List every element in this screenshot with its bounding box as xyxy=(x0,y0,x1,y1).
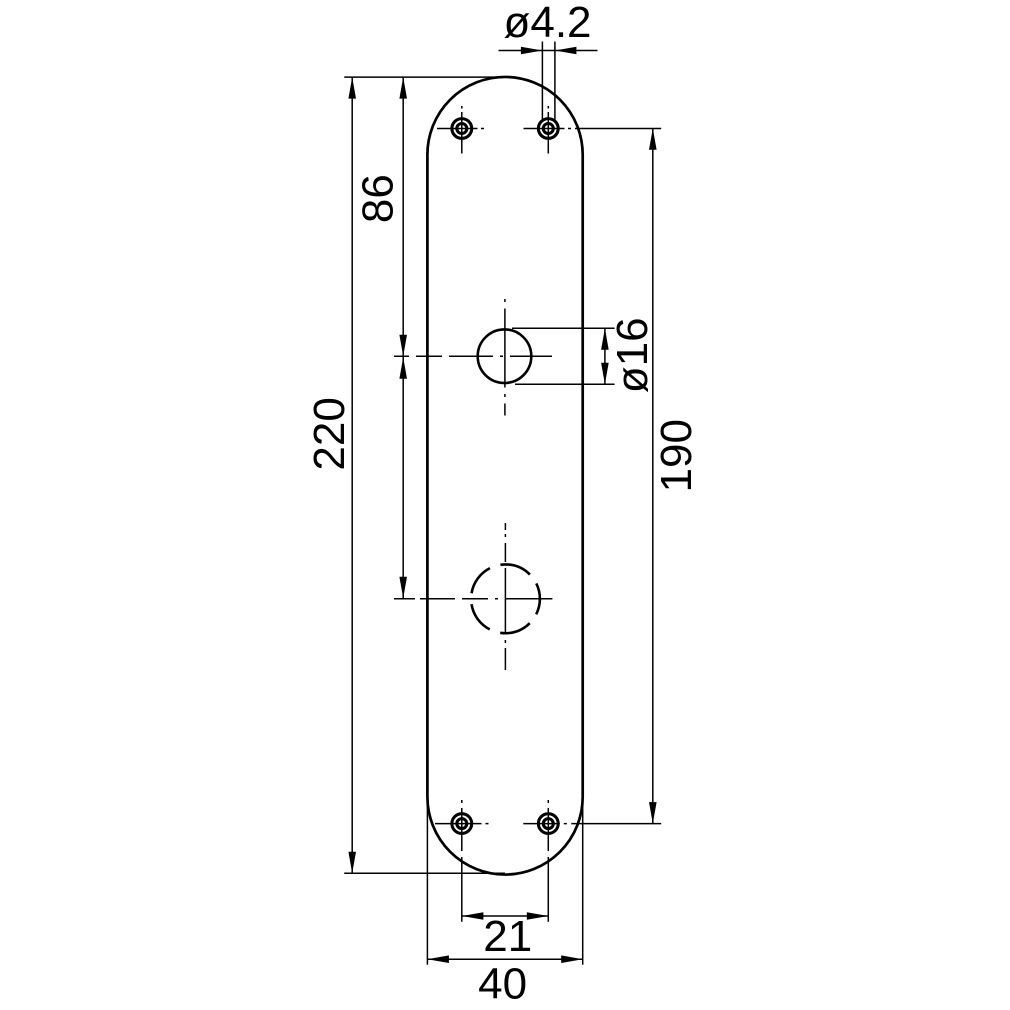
svg-text:21: 21 xyxy=(483,912,532,961)
svg-text:40: 40 xyxy=(478,960,527,1009)
svg-text:86: 86 xyxy=(353,174,402,223)
svg-text:ø16: ø16 xyxy=(608,317,657,393)
svg-text:190: 190 xyxy=(652,419,701,492)
svg-text:ø4.2: ø4.2 xyxy=(503,0,591,47)
svg-text:220: 220 xyxy=(305,397,354,470)
